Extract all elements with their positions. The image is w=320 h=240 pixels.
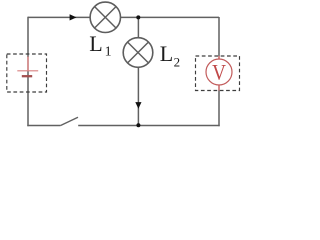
svg-text:1: 1: [105, 45, 112, 60]
svg-text:2: 2: [174, 55, 181, 70]
svg-text:V: V: [212, 60, 226, 85]
svg-text:L: L: [89, 31, 102, 56]
svg-text:L: L: [160, 41, 173, 66]
